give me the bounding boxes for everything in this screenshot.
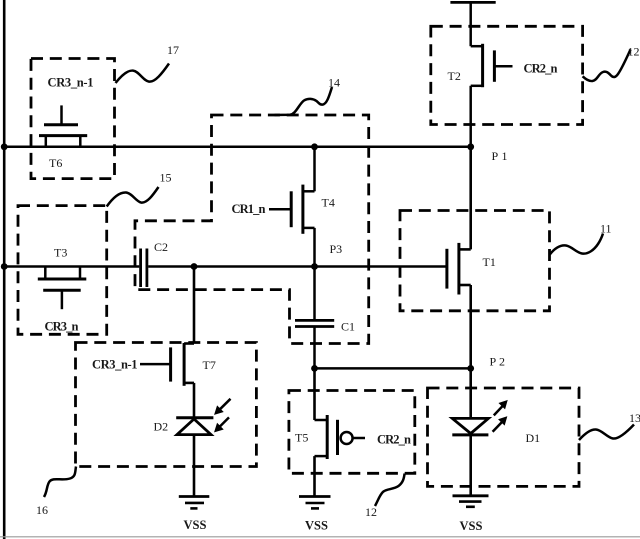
photodiode D2 xyxy=(176,418,213,497)
transistor T4 xyxy=(269,147,315,267)
arrow into D2 (upper) xyxy=(215,399,231,414)
power rail top xyxy=(450,1,495,4)
svg-text:T7: T7 xyxy=(203,358,216,372)
wire: row-2 net, C2 right plate to T1 gate xyxy=(148,265,447,268)
svg-text:12: 12 xyxy=(628,45,640,59)
svg-text:13: 13 xyxy=(629,411,640,425)
svg-text:D2: D2 xyxy=(154,420,169,434)
leader squiggle to 12 (top) xyxy=(583,50,631,82)
svg-text:CR3_n: CR3_n xyxy=(45,320,79,334)
dashed box 17 around T6 xyxy=(31,59,115,179)
dashed box 16 around T7 D2 xyxy=(76,343,257,467)
svg-text:CR3_n-1: CR3_n-1 xyxy=(92,358,138,372)
ground symbol (D1) xyxy=(453,496,489,507)
svg-text:14: 14 xyxy=(328,76,340,90)
transistor T1 xyxy=(447,147,471,369)
node: junction C2/T7 branch xyxy=(191,263,198,270)
svg-text:T5: T5 xyxy=(295,431,308,445)
svg-text:T6: T6 xyxy=(49,156,62,170)
transistor T6 xyxy=(39,105,87,146)
svg-text:P1: P1 xyxy=(492,149,508,163)
node P2 junction xyxy=(467,365,474,372)
ground symbol (D2) xyxy=(179,497,210,509)
wire: left vertical bus xyxy=(3,0,6,539)
svg-text:16: 16 xyxy=(36,503,48,517)
leader squiggle to 12 (bottom) xyxy=(375,474,405,507)
leader squiggle to 15 xyxy=(107,187,159,207)
arrow out of D1 (lower) xyxy=(493,417,507,432)
svg-text:VSS: VSS xyxy=(460,519,483,533)
wire: P3 to C1 top plate xyxy=(313,267,316,321)
leader squiggle to 11 xyxy=(550,234,603,255)
transistor T3 xyxy=(38,267,87,310)
capacitor C2 xyxy=(141,249,147,288)
svg-text:VSS: VSS xyxy=(184,518,207,532)
wire: C1 bottom plate down to P2 net xyxy=(313,327,316,369)
svg-text:C2: C2 xyxy=(154,240,168,254)
dashed box 13 around D1 xyxy=(428,388,580,486)
leader squiggle to 14 xyxy=(275,87,333,115)
bottom scan line xyxy=(0,536,640,538)
dashed box 11 around T1 xyxy=(400,211,550,311)
svg-text:C1: C1 xyxy=(341,320,355,334)
node P3 junction xyxy=(311,263,318,270)
svg-text:P3: P3 xyxy=(330,242,343,256)
transistor T5 xyxy=(315,368,366,496)
LED D1 xyxy=(452,368,488,495)
node: junction C1 bottom / T5 xyxy=(311,365,318,372)
svg-text:D1: D1 xyxy=(526,431,541,445)
svg-text:T2: T2 xyxy=(448,69,461,83)
svg-text:CR3_n-1: CR3_n-1 xyxy=(48,76,94,90)
wire: row-2 net, bus to C2 left plate xyxy=(4,265,139,268)
ground symbol (T5) xyxy=(299,497,331,509)
leader squiggle to 17 xyxy=(116,64,170,84)
capacitor C1 xyxy=(295,320,334,326)
svg-text:CR1_n: CR1_n xyxy=(232,202,266,216)
svg-text:T1: T1 xyxy=(483,255,496,269)
dashed box 14 around T4 C1 C2 (polygon) xyxy=(135,115,369,344)
node: junction bus/row-2 xyxy=(1,263,8,270)
dashed box 12 around T5 xyxy=(289,391,415,474)
arrow out of D1 (upper) xyxy=(494,401,507,416)
node: junction bus/row-1 xyxy=(1,143,8,150)
dashed box around T2 xyxy=(431,26,583,124)
transistor T7 xyxy=(140,267,194,418)
wire: P2 horizontal net xyxy=(315,367,471,370)
svg-text:T3: T3 xyxy=(54,246,67,260)
node P1 junction xyxy=(467,143,474,150)
svg-text:VSS: VSS xyxy=(305,519,328,533)
leader squiggle to 16 xyxy=(44,467,76,498)
leader squiggle to 13 xyxy=(579,425,634,441)
transistor T2 xyxy=(471,1,513,147)
svg-text:P2: P2 xyxy=(490,355,506,369)
svg-text:T4: T4 xyxy=(322,196,335,210)
arrow into D2 (lower) xyxy=(215,417,229,431)
svg-text:12: 12 xyxy=(365,505,377,519)
svg-text:11: 11 xyxy=(600,222,612,236)
wire: row-1 horizontal net y=147 xyxy=(4,146,471,149)
svg-text:CR2_n: CR2_n xyxy=(524,62,558,76)
dashed box 15 around T3 xyxy=(18,206,107,335)
svg-text:17: 17 xyxy=(167,43,179,57)
svg-text:CR2_n: CR2_n xyxy=(377,433,411,447)
node: junction T4 drain on row-1 xyxy=(311,143,318,150)
svg-text:15: 15 xyxy=(160,171,172,185)
